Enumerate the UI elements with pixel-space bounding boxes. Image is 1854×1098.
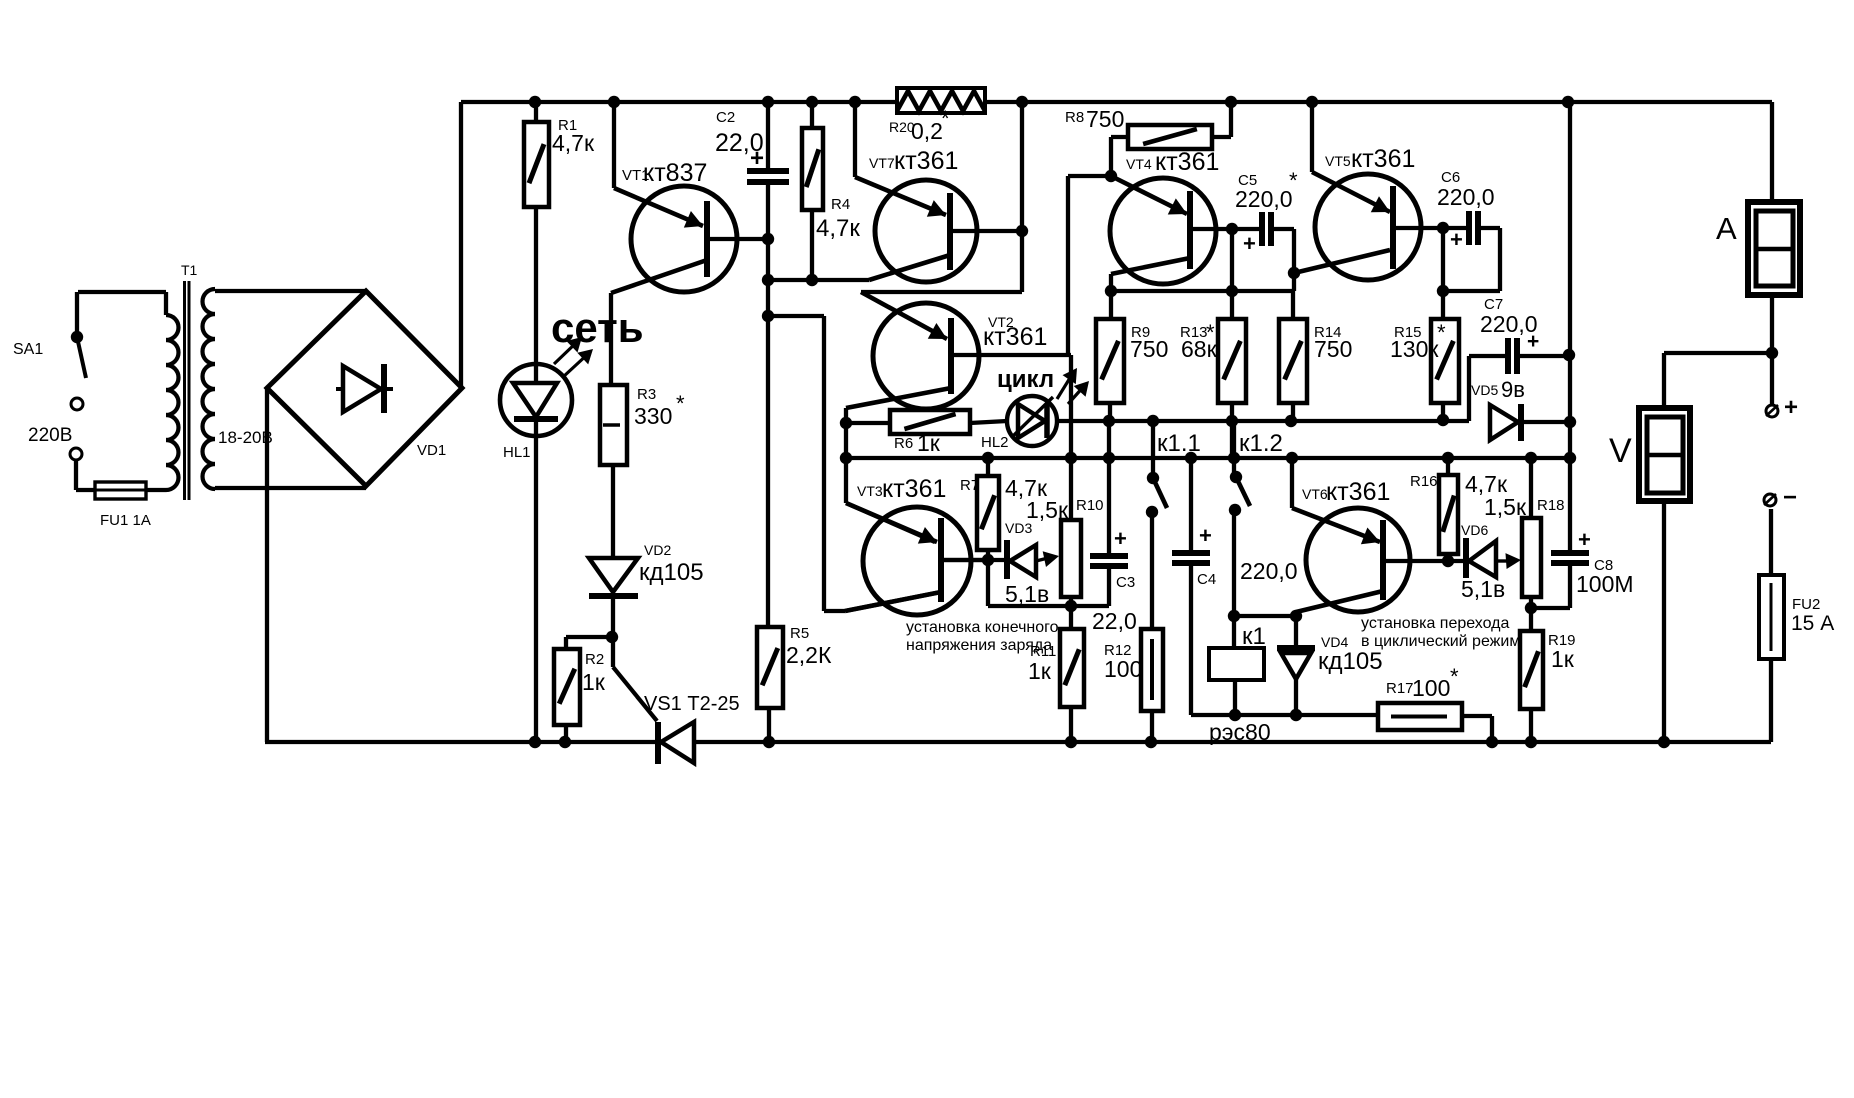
svg-text:15 А: 15 А [1791,612,1834,635]
svg-text:4,7к: 4,7к [816,215,860,242]
svg-text:R18: R18 [1537,497,1565,514]
svg-text:+: + [1527,330,1539,353]
svg-text:+: + [750,145,764,172]
svg-text:4,7к: 4,7к [552,130,595,156]
svg-text:VD6: VD6 [1461,522,1488,538]
svg-text:HL2: HL2 [981,434,1009,451]
svg-text:1к: 1к [1551,646,1575,672]
svg-text:750: 750 [1130,336,1168,362]
svg-text:VS1 Т2-25: VS1 Т2-25 [644,693,740,715]
svg-text:*: * [1289,168,1298,193]
svg-text:кт361: кт361 [1351,145,1415,173]
svg-text:кт361: кт361 [894,147,958,175]
svg-text:100М: 100М [1576,571,1634,597]
svg-text:220,0: 220,0 [1437,184,1495,210]
svg-text:C3: C3 [1116,574,1135,591]
svg-text:330: 330 [634,403,672,429]
svg-text:−: − [1783,484,1797,511]
svg-text:к1: к1 [1242,623,1266,650]
svg-text:кт361: кт361 [882,475,946,503]
svg-text:5,1в: 5,1в [1005,581,1049,607]
svg-text:VD2: VD2 [644,542,671,558]
svg-text:+: + [1578,527,1591,552]
svg-text:кт361: кт361 [983,323,1047,351]
svg-text:1,5к: 1,5к [1026,497,1069,523]
svg-text:FU2: FU2 [1792,596,1820,613]
svg-text:VD3: VD3 [1005,520,1032,536]
svg-text:R17: R17 [1386,680,1414,697]
svg-text:1,5к: 1,5к [1484,494,1527,520]
svg-text:18-20В: 18-20В [218,428,273,447]
svg-text:R2: R2 [585,651,604,668]
svg-text:к1.1: к1.1 [1157,430,1201,457]
svg-text:+: + [1199,523,1212,548]
svg-text:2,2К: 2,2К [786,642,832,668]
svg-text:VT5: VT5 [1325,153,1351,169]
svg-text:VT7: VT7 [869,155,895,171]
svg-text:R4: R4 [831,196,850,213]
svg-text:*: * [1437,320,1446,345]
svg-text:кд105: кд105 [1318,648,1383,675]
svg-text:R7: R7 [960,477,979,494]
svg-text:R3: R3 [637,386,656,403]
svg-text:750: 750 [1086,106,1124,132]
svg-text:кт361: кт361 [1326,478,1390,506]
svg-text:VT3: VT3 [857,483,883,499]
svg-text:+: + [1784,394,1798,421]
svg-text:C4: C4 [1197,571,1216,588]
svg-text:0,2: 0,2 [911,118,943,144]
svg-text:кт361: кт361 [1155,148,1219,176]
svg-text:+: + [1243,231,1256,256]
svg-text:HL1: HL1 [503,444,531,461]
svg-text:T1: T1 [181,262,198,278]
svg-text:9в: 9в [1501,377,1525,402]
svg-text:*: * [676,391,685,416]
svg-text:100: 100 [1412,675,1450,701]
svg-text:100: 100 [1104,656,1142,682]
svg-text:в циклический режим: в циклический режим [1361,633,1520,650]
svg-text:220,0: 220,0 [1235,186,1293,212]
svg-text:кт837: кт837 [643,159,707,187]
svg-text:сеть: сеть [551,304,644,351]
svg-text:*: * [941,106,950,131]
svg-text:установка перехода: установка перехода [1361,615,1510,632]
svg-text:5,1в: 5,1в [1461,576,1505,602]
svg-text:C2: C2 [716,109,735,126]
svg-text:рэс80: рэс80 [1209,719,1271,745]
svg-text:130к: 130к [1390,336,1439,362]
svg-text:VT6: VT6 [1302,486,1328,502]
svg-text:220,0: 220,0 [1240,558,1298,584]
svg-text:R8: R8 [1065,109,1084,126]
svg-text:+: + [1114,526,1127,551]
svg-text:V: V [1609,432,1632,470]
svg-text:к1.2: к1.2 [1239,430,1283,457]
svg-text:A: A [1716,211,1737,246]
svg-text:VT4: VT4 [1126,156,1152,172]
svg-text:напряжения заряда: напряжения заряда [906,637,1052,654]
svg-text:1к: 1к [1028,658,1052,684]
svg-text:установка конечного: установка конечного [906,619,1059,636]
svg-text:1к: 1к [582,669,606,695]
svg-text:*: * [1450,664,1459,689]
svg-text:220В: 220В [28,425,72,446]
svg-text:22,0: 22,0 [1092,608,1137,634]
svg-text:VD5: VD5 [1471,382,1498,398]
svg-text:VD1: VD1 [417,442,446,459]
svg-text:R10: R10 [1076,497,1104,514]
svg-text:1к: 1к [917,430,941,456]
svg-text:R5: R5 [790,625,809,642]
svg-text:FU1 1А: FU1 1А [100,512,151,529]
svg-text:цикл: цикл [997,366,1054,393]
svg-text:R6: R6 [894,435,913,452]
svg-text:*: * [1206,320,1215,345]
svg-text:750: 750 [1314,336,1352,362]
svg-text:кд105: кд105 [639,559,704,586]
svg-text:+: + [1450,227,1463,252]
svg-text:SA1: SA1 [13,341,43,358]
svg-text:R16: R16 [1410,473,1438,490]
